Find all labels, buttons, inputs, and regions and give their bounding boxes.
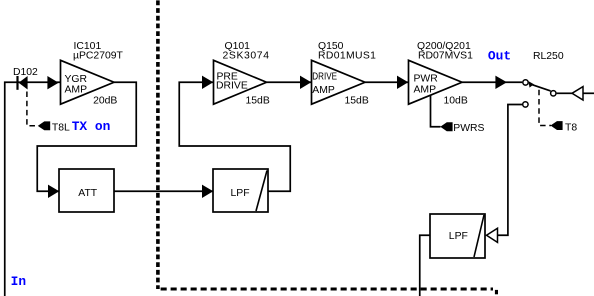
svg-text:PWR: PWR bbox=[414, 74, 439, 85]
svg-text:AMP: AMP bbox=[65, 85, 88, 96]
svg-text:T8: T8 bbox=[565, 123, 577, 134]
svg-text:µPC2709T: µPC2709T bbox=[73, 51, 124, 62]
svg-text:AMP: AMP bbox=[312, 85, 335, 96]
svg-text:LPF: LPF bbox=[449, 231, 468, 242]
svg-text:ATT: ATT bbox=[78, 188, 98, 199]
svg-text:D102: D102 bbox=[13, 67, 38, 78]
svg-text:DRIVE: DRIVE bbox=[312, 71, 337, 82]
svg-text:Out: Out bbox=[488, 49, 511, 64]
svg-text:DRIVE: DRIVE bbox=[216, 80, 248, 91]
svg-text:RD01MUS1: RD01MUS1 bbox=[318, 51, 376, 62]
svg-text:LPF: LPF bbox=[231, 188, 250, 199]
svg-text:TX on: TX on bbox=[72, 119, 111, 134]
svg-text:10dB: 10dB bbox=[444, 95, 468, 106]
svg-text:20dB: 20dB bbox=[93, 95, 117, 106]
svg-text:In: In bbox=[11, 274, 26, 289]
svg-text:RL250: RL250 bbox=[533, 51, 564, 62]
svg-text:15dB: 15dB bbox=[345, 95, 369, 106]
svg-text:2SK3074: 2SK3074 bbox=[223, 51, 270, 62]
svg-text:AMP: AMP bbox=[414, 85, 437, 96]
svg-text:YGR: YGR bbox=[65, 74, 88, 85]
svg-text:T8L: T8L bbox=[52, 122, 70, 133]
svg-text:PWRS: PWRS bbox=[453, 123, 484, 134]
svg-text:RD07MVS1: RD07MVS1 bbox=[418, 51, 473, 62]
svg-text:15dB: 15dB bbox=[246, 95, 270, 106]
